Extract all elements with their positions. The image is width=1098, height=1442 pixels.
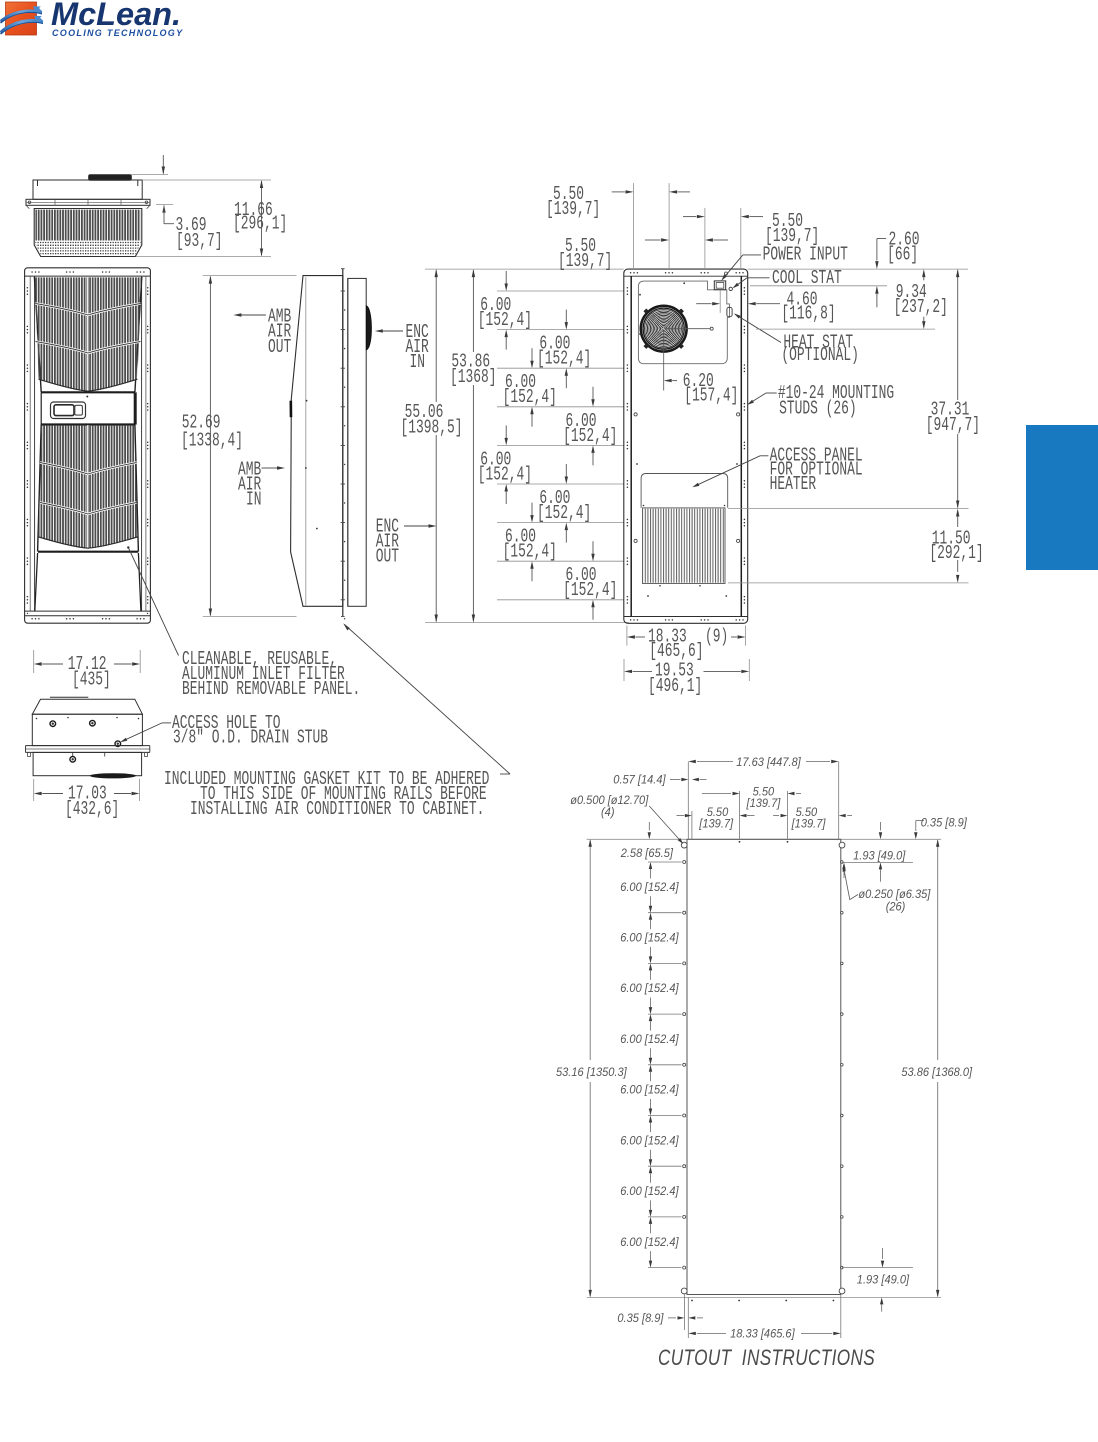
dim 5.50 #2 xyxy=(645,239,661,241)
svg-text:[496,1]: [496,1] xyxy=(648,675,702,697)
label AMB AIR OUT xyxy=(233,313,241,316)
dim 53.16 left xyxy=(589,840,591,1060)
bottom view: mounting rail strip xyxy=(26,745,150,747)
cutout: top/bottom edge stud dots xyxy=(739,841,741,843)
svg-text:[152,4]: [152,4] xyxy=(503,540,557,562)
svg-text:OUT: OUT xyxy=(268,336,291,358)
6.00 chain lines xyxy=(497,290,624,292)
svg-text:STUDS (26): STUDS (26) xyxy=(779,397,856,419)
fan: guard tabs xyxy=(678,343,684,349)
svg-text:[152,4]: [152,4] xyxy=(478,463,532,485)
cutout: rectangle xyxy=(687,839,841,1294)
svg-text:[152,4]: [152,4] xyxy=(503,386,557,408)
bottom view: lower pan xyxy=(33,752,142,775)
label HEAT STAT (OPTIONAL) xyxy=(736,315,782,343)
svg-text:17.63 [447.8]: 17.63 [447.8] xyxy=(736,755,801,769)
dim 37.31 xyxy=(957,270,959,400)
rear view: recessed fan panel with power notch xyxy=(638,281,729,364)
svg-text:[139,7]: [139,7] xyxy=(546,198,600,220)
cutout: boundary extension lines xyxy=(587,838,942,840)
svg-text:[139.7]: [139.7] xyxy=(791,817,826,831)
fan centerlines xyxy=(664,328,711,330)
stud dots inside panel xyxy=(683,282,685,284)
svg-text:6.00 [152.4]: 6.00 [152.4] xyxy=(620,1032,679,1046)
dim 5.50 #2 (cutout) xyxy=(702,793,731,795)
dim 6.20 xyxy=(664,379,672,382)
top view: body rectangle xyxy=(33,180,142,199)
svg-text:3/8" O.D. DRAIN STUB: 3/8" O.D. DRAIN STUB xyxy=(173,726,328,748)
top view: mounting rail xyxy=(26,199,150,205)
fan: guard rings xyxy=(641,306,687,352)
svg-text:COOLING TECHNOLOGY: COOLING TECHNOLOGY xyxy=(52,28,183,38)
svg-text:53.16 [1350.3]: 53.16 [1350.3] xyxy=(556,1065,627,1079)
leader: gasket note diagonal xyxy=(345,625,511,775)
front view: taper edge lines xyxy=(34,277,41,392)
svg-text:[66]: [66] xyxy=(887,243,918,265)
svg-text:[139.7]: [139.7] xyxy=(746,796,781,810)
blue sidebar tab xyxy=(1026,425,1098,570)
svg-text:[435]: [435] xyxy=(72,668,111,690)
svg-text:[1368]: [1368] xyxy=(450,366,496,388)
heat stat (optional) xyxy=(727,307,732,316)
top 5.50 extension lines xyxy=(633,183,635,269)
dim 18.33 (9) xyxy=(626,626,628,646)
svg-text:[139,7]: [139,7] xyxy=(558,250,612,272)
bottom view: drain pan bolts xyxy=(50,721,56,727)
front view dim 52.69 xyxy=(203,275,297,277)
svg-text:[237,2]: [237,2] xyxy=(894,295,948,317)
6.00 chain dims xyxy=(505,271,507,284)
bottom view: compressor shadow xyxy=(90,773,136,778)
bottom view dim 17.12 xyxy=(33,650,35,673)
svg-text:CUTOUT INSTRUCTIONS: CUTOUT INSTRUCTIONS xyxy=(658,1346,875,1371)
svg-text:6.00 [152.4]: 6.00 [152.4] xyxy=(620,1134,679,1148)
dim 53.86 xyxy=(472,270,474,352)
dim 11.50 xyxy=(956,509,959,517)
svg-text:53.86 [1368.0]: 53.86 [1368.0] xyxy=(901,1065,972,1079)
side view: enclosure air inlet (dark bump) xyxy=(366,306,371,350)
svg-text:(4): (4) xyxy=(601,805,615,819)
svg-text:[432,6]: [432,6] xyxy=(65,798,119,820)
rear louver grille xyxy=(643,508,726,584)
front view: outer frame xyxy=(25,268,151,623)
cutout 5.50 ext lines xyxy=(691,811,693,839)
dim 5.50 #1 xyxy=(612,191,625,193)
svg-text:[1398,5]: [1398,5] xyxy=(401,416,463,438)
extension lines top/bottom xyxy=(425,268,624,270)
svg-text:1.93 [49.0]: 1.93 [49.0] xyxy=(853,849,906,863)
svg-text:[296,1]: [296,1] xyxy=(233,212,287,234)
svg-text:0.35 [8.9]: 0.35 [8.9] xyxy=(617,1311,664,1325)
cutout: corner holes (0.500) xyxy=(681,842,687,848)
front view: middle control band xyxy=(41,391,135,393)
side view: small dark latch on left edge xyxy=(289,401,292,418)
dim 2.60 / [66] xyxy=(876,239,878,261)
dim 53.86 right xyxy=(937,840,939,1060)
svg-text:6.00 [152.4]: 6.00 [152.4] xyxy=(620,880,679,894)
dim 1.93 top right xyxy=(842,861,913,863)
svg-text:[152,4]: [152,4] xyxy=(478,309,532,331)
svg-text:POWER INPUT: POWER INPUT xyxy=(763,243,848,265)
svg-text:6.00 [152.4]: 6.00 [152.4] xyxy=(620,1083,679,1097)
bottom view: unit body xyxy=(50,696,88,698)
McLean logo icon xyxy=(0,2,43,35)
dim 0.35 top right xyxy=(916,820,924,822)
svg-text:[152,4]: [152,4] xyxy=(563,424,617,446)
svg-text:(9): (9) xyxy=(705,625,728,647)
svg-text:[157,4]: [157,4] xyxy=(684,384,738,406)
svg-text:[152,4]: [152,4] xyxy=(537,502,591,524)
side view: cabinet-side frame xyxy=(348,278,366,606)
svg-text:IN: IN xyxy=(410,351,426,373)
svg-text:[152,4]: [152,4] xyxy=(537,347,591,369)
dim 55.06 xyxy=(435,270,437,402)
dim 18.33 bottom xyxy=(687,1297,689,1338)
inner corner hole circles xyxy=(634,413,637,416)
svg-text:INSTALLING AIR CONDITIONER TO: INSTALLING AIR CONDITIONER TO CABINET. xyxy=(190,798,484,820)
stud row extension + 2.60 bottom arrow xyxy=(750,285,887,287)
access panel for heater xyxy=(641,474,728,508)
svg-text:6.00 [152.4]: 6.00 [152.4] xyxy=(620,1235,679,1249)
svg-text:[139.7]: [139.7] xyxy=(698,817,733,831)
svg-text:HEATER: HEATER xyxy=(770,473,817,495)
svg-text:[116,8]: [116,8] xyxy=(781,302,835,324)
side view: mounting rail xyxy=(342,269,344,617)
svg-text:6.00 [152.4]: 6.00 [152.4] xyxy=(620,931,679,945)
label POWER INPUT xyxy=(743,254,761,256)
front view: display/controller xyxy=(51,402,86,419)
svg-text:18.33 [465.6]: 18.33 [465.6] xyxy=(730,1327,795,1341)
svg-text:[93,7]: [93,7] xyxy=(176,230,222,252)
svg-text:0.57 [14.4]: 0.57 [14.4] xyxy=(613,773,666,787)
power input connector xyxy=(714,281,725,290)
rear view: inner cabinet xyxy=(630,276,632,616)
side view: main slanted body xyxy=(291,276,343,607)
front view: top band xyxy=(25,275,151,277)
svg-text:(OPTIONAL): (OPTIONAL) xyxy=(781,343,858,365)
label #10-24 MOUNTING STUDS (26) xyxy=(766,392,777,394)
cool stat sensor xyxy=(729,287,732,290)
dim 9.34 xyxy=(922,269,925,277)
svg-text:[947,7]: [947,7] xyxy=(926,414,980,436)
dim 17.63 top xyxy=(687,762,689,840)
cutout: stud holes (0.250) xyxy=(683,861,686,864)
svg-text:BEHIND REMOVABLE PANEL.: BEHIND REMOVABLE PANEL. xyxy=(182,678,360,700)
svg-text:(26): (26) xyxy=(886,900,906,914)
svg-text:1.93 [49.0]: 1.93 [49.0] xyxy=(857,1273,910,1287)
svg-text:[1338,4]: [1338,4] xyxy=(181,429,243,451)
bottom view dim 17.03 xyxy=(33,779,35,801)
label ACCESS PANEL FOR OPTIONAL HEATER xyxy=(760,455,768,457)
dim 5.50 #3 (cutout) xyxy=(773,815,779,817)
dim 4.60 xyxy=(719,290,721,313)
front view: side columns xyxy=(29,276,31,611)
label COOL STAT xyxy=(747,277,770,279)
rear view: flange bands xyxy=(624,275,748,277)
svg-text:[152,4]: [152,4] xyxy=(563,579,617,601)
top view: grille with filter xyxy=(34,209,142,257)
leader: cleanable filter note xyxy=(127,546,129,548)
front view: bottom band xyxy=(25,610,151,612)
dim 1.93 bottom right xyxy=(842,1267,913,1269)
svg-text:2.58 [65.5]: 2.58 [65.5] xyxy=(620,846,674,860)
leader: access hole xyxy=(122,723,163,742)
svg-text:0.35 [8.9]: 0.35 [8.9] xyxy=(921,816,968,830)
cutout left 6.00 chain xyxy=(648,861,682,863)
rear view: outer frame xyxy=(624,269,748,623)
dim 5.50 #3 xyxy=(683,216,696,218)
svg-text:IN: IN xyxy=(246,488,262,510)
dim 19.53 xyxy=(623,659,625,681)
svg-text:OUT: OUT xyxy=(376,545,399,567)
svg-text:[292,1]: [292,1] xyxy=(929,542,983,564)
label ENC AIR IN xyxy=(375,329,383,332)
top view dims 11.66 / 3.69 xyxy=(131,174,168,176)
top view: condenser cap xyxy=(89,175,132,180)
svg-text:6.00 [152.4]: 6.00 [152.4] xyxy=(620,982,679,996)
svg-text:6.00 [152.4]: 6.00 [152.4] xyxy=(620,1185,679,1199)
bottom view: access hole to drain stub xyxy=(115,741,121,747)
